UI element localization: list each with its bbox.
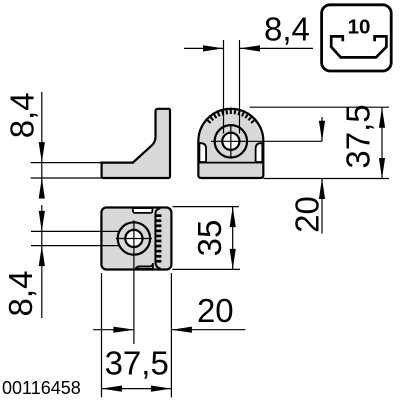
svg-text:8,4: 8,4 [264, 11, 310, 48]
svg-text:8,4: 8,4 [2, 271, 39, 317]
svg-text:20: 20 [289, 196, 326, 233]
svg-text:20: 20 [197, 292, 234, 329]
svg-text:8,4: 8,4 [4, 92, 41, 138]
svg-text:37,5: 37,5 [340, 104, 377, 168]
svg-text:10: 10 [348, 16, 371, 39]
svg-text:37,5: 37,5 [105, 345, 169, 382]
svg-text:00116458: 00116458 [2, 378, 81, 398]
svg-text:35: 35 [191, 220, 228, 257]
